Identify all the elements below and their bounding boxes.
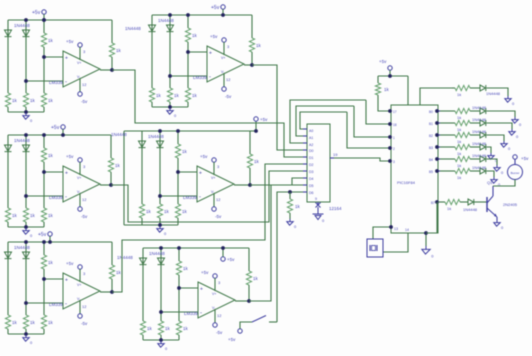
svg-text:1k: 1k (147, 326, 153, 331)
svg-text:1N4448: 1N4448 (149, 251, 165, 256)
svg-text:-: - (209, 75, 211, 81)
svg-text:LM339: LM339 (184, 311, 198, 316)
svg-text:1N4148: 1N4148 (472, 129, 487, 134)
svg-text:V+: V+ (77, 283, 81, 287)
svg-text:+: + (209, 51, 212, 57)
svg-text:LM339: LM339 (49, 302, 63, 307)
svg-text:-5v: -5v (225, 94, 232, 99)
svg-text:B2: B2 (429, 134, 433, 138)
svg-text:3: 3 (393, 160, 395, 164)
svg-text:1k: 1k (183, 326, 189, 331)
svg-text:1k: 1k (48, 213, 54, 218)
svg-text:1k: 1k (12, 213, 18, 218)
svg-text:D1: D1 (309, 156, 314, 160)
svg-text:D6: D6 (309, 191, 314, 195)
svg-text:1k: 1k (30, 320, 36, 325)
svg-text:12: 12 (82, 304, 87, 309)
svg-text:V+: V+ (212, 292, 216, 296)
svg-text:1k: 1k (48, 320, 54, 325)
svg-text:+: + (65, 171, 68, 177)
svg-text:1N4448: 1N4448 (111, 132, 127, 137)
svg-text:+: + (65, 278, 68, 284)
svg-text:12: 12 (217, 313, 222, 318)
svg-text:1k: 1k (295, 204, 301, 209)
svg-text:PIC16F84: PIC16F84 (397, 180, 416, 185)
svg-text:1k: 1k (447, 206, 451, 211)
svg-text:Q1: Q1 (487, 180, 493, 185)
svg-text:LM339: LM339 (49, 195, 63, 200)
svg-text:1k: 1k (48, 98, 54, 103)
svg-text:+5v: +5v (211, 5, 220, 11)
svg-text:1k: 1k (457, 163, 461, 168)
svg-text:-: - (65, 195, 67, 201)
svg-text:+: + (199, 171, 202, 177)
svg-text:1k: 1k (146, 209, 152, 214)
svg-text:1k: 1k (48, 153, 54, 158)
svg-text:+5v: +5v (521, 156, 529, 161)
svg-text:1N4148: 1N4148 (472, 165, 487, 170)
svg-text:LM339: LM339 (49, 80, 63, 85)
svg-text:1k: 1k (183, 266, 189, 271)
svg-text:12: 12 (82, 82, 87, 87)
svg-text:14: 14 (405, 228, 409, 232)
svg-text:+5v: +5v (66, 154, 74, 159)
svg-text:B4: B4 (429, 158, 433, 162)
svg-text:2N2405: 2N2405 (503, 202, 518, 207)
svg-text:+5v: +5v (228, 337, 236, 342)
svg-text:+5v: +5v (51, 125, 60, 131)
svg-text:1k: 1k (457, 127, 461, 132)
svg-text:1N4448: 1N4448 (117, 255, 133, 260)
svg-text:1k: 1k (384, 87, 390, 92)
svg-text:1k: 1k (192, 33, 198, 38)
svg-text:2: 2 (393, 147, 395, 151)
svg-text:1k: 1k (457, 115, 461, 120)
svg-text:1k: 1k (156, 93, 162, 98)
svg-text:Buzzer: Buzzer (511, 171, 520, 175)
svg-text:-: - (65, 302, 67, 308)
svg-text:1k: 1k (165, 326, 171, 331)
svg-text:V+: V+ (221, 56, 225, 60)
svg-text:1k: 1k (182, 209, 188, 214)
svg-text:-: - (199, 195, 201, 201)
svg-text:D2: D2 (309, 163, 314, 167)
svg-text:1k: 1k (12, 98, 18, 103)
svg-text:1N4148: 1N4148 (472, 105, 487, 110)
svg-text:D4: D4 (309, 177, 314, 181)
svg-text:1k: 1k (164, 209, 170, 214)
svg-text:1k: 1k (48, 38, 54, 43)
svg-text:+5v: +5v (66, 261, 74, 266)
svg-text:-: - (200, 311, 202, 317)
svg-text:+5v: +5v (260, 117, 268, 122)
svg-text:B0: B0 (429, 110, 433, 114)
svg-text:1N4448: 1N4448 (14, 245, 30, 250)
svg-text:18: 18 (393, 123, 397, 127)
svg-text:1N4448: 1N4448 (125, 26, 141, 31)
svg-text:A2: A2 (309, 143, 313, 147)
svg-text:1N4448: 1N4448 (14, 138, 30, 143)
svg-text:1k: 1k (457, 139, 461, 144)
svg-text:+5v: +5v (32, 10, 41, 16)
svg-text:+5v: +5v (201, 270, 209, 275)
svg-text:1k: 1k (30, 98, 36, 103)
svg-text:1k: 1k (253, 276, 259, 281)
svg-text:1N4448: 1N4448 (486, 91, 501, 96)
svg-text:-5v: -5v (215, 214, 222, 219)
svg-text:1k: 1k (182, 149, 188, 154)
svg-text:B3: B3 (429, 146, 433, 150)
svg-text:1N4148: 1N4148 (472, 153, 487, 158)
svg-text:+5v: +5v (66, 39, 74, 44)
svg-text:D3: D3 (309, 170, 314, 174)
svg-text:1N4148: 1N4148 (472, 117, 487, 122)
svg-text:-5v: -5v (81, 99, 88, 104)
svg-text:+5v: +5v (200, 154, 208, 159)
svg-text:B1: B1 (429, 122, 433, 126)
svg-text:-5v: -5v (216, 330, 223, 335)
svg-text:1N4448: 1N4448 (463, 207, 478, 212)
svg-text:B5: B5 (429, 170, 433, 174)
svg-text:1N4448: 1N4448 (148, 134, 164, 139)
svg-text:+5v: +5v (38, 232, 47, 238)
svg-text:D0: D0 (309, 149, 314, 153)
svg-text:LM339: LM339 (193, 75, 207, 80)
svg-text:1k: 1k (12, 320, 18, 325)
svg-text:1k: 1k (116, 270, 122, 275)
svg-text:1N4448: 1N4448 (14, 23, 30, 28)
svg-text:V+: V+ (77, 176, 81, 180)
svg-text:1N4148: 1N4148 (472, 141, 487, 146)
svg-text:-5v: -5v (81, 321, 88, 326)
svg-text:+: + (200, 287, 203, 293)
svg-text:+5v: +5v (210, 34, 218, 39)
svg-text:1k: 1k (256, 43, 262, 48)
svg-text:1k: 1k (30, 213, 36, 218)
svg-text:D5: D5 (309, 184, 314, 188)
svg-text:12: 12 (226, 77, 231, 82)
svg-text:-5v: -5v (81, 214, 88, 219)
svg-text:V+: V+ (211, 176, 215, 180)
svg-text:1k: 1k (48, 260, 54, 265)
svg-text:1k: 1k (457, 175, 461, 180)
svg-text:V+: V+ (77, 61, 81, 65)
svg-text:1k: 1k (457, 151, 461, 156)
svg-text:1k: 1k (457, 92, 461, 97)
svg-text:1k: 1k (174, 93, 180, 98)
svg-text:+5v: +5v (227, 257, 235, 262)
svg-text:+5v: +5v (379, 59, 387, 64)
svg-text:+: + (65, 56, 68, 62)
svg-text:1k: 1k (192, 93, 198, 98)
svg-text:1: 1 (393, 136, 395, 140)
svg-text:9: 9 (315, 197, 317, 201)
svg-text:1k: 1k (115, 163, 121, 168)
svg-text:13: 13 (394, 227, 398, 231)
svg-text:1N4448: 1N4448 (158, 18, 174, 23)
svg-text:12164: 12164 (329, 206, 342, 211)
svg-text:12: 12 (216, 197, 221, 202)
svg-text:-: - (65, 80, 67, 86)
svg-text:17: 17 (393, 110, 397, 114)
svg-text:1k: 1k (116, 48, 122, 53)
svg-text:12: 12 (82, 197, 87, 202)
svg-text:A1: A1 (309, 136, 313, 140)
svg-text:1k: 1k (254, 159, 260, 164)
svg-text:B7: B7 (431, 201, 435, 205)
svg-text:19: 19 (333, 152, 338, 157)
svg-text:A0: A0 (309, 129, 313, 133)
svg-text:LM339: LM339 (183, 195, 197, 200)
